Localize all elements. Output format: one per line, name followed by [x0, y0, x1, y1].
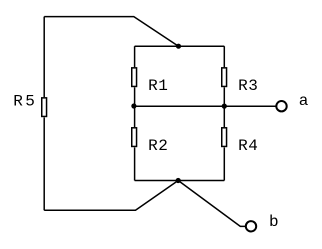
- node junction right-mid: [222, 104, 227, 109]
- wire: [134, 46, 136, 67]
- resistor R3: [222, 68, 227, 87]
- wire: [134, 147, 136, 180]
- wire: [44, 181, 178, 211]
- wire: [135, 180, 225, 182]
- node junction top: [176, 44, 181, 49]
- svg-text:R3: R3: [238, 77, 258, 95]
- resistor R4: [222, 128, 227, 147]
- wire: [43, 117, 45, 210]
- wire: [43, 17, 45, 98]
- svg-text:a: a: [299, 92, 309, 110]
- wire: [223, 147, 225, 180]
- wire: [135, 105, 277, 107]
- node junction left-mid: [131, 103, 136, 108]
- svg-text:R4: R4: [238, 137, 258, 155]
- svg-text:b: b: [269, 213, 279, 231]
- svg-text:R2: R2: [148, 137, 168, 155]
- wire: [44, 17, 178, 47]
- wire: [178, 181, 246, 227]
- terminal a: [276, 101, 286, 111]
- wire: [134, 87, 136, 127]
- svg-text:R1: R1: [148, 77, 168, 95]
- wire: [223, 46, 225, 67]
- wire: [135, 45, 225, 47]
- resistor R5: [42, 98, 47, 117]
- resistor R1: [132, 68, 137, 87]
- node junction bottom: [176, 178, 181, 183]
- wire: [223, 87, 225, 127]
- resistor R2: [132, 128, 137, 147]
- svg-text:R5: R5: [13, 93, 37, 111]
- terminal b: [246, 221, 256, 231]
